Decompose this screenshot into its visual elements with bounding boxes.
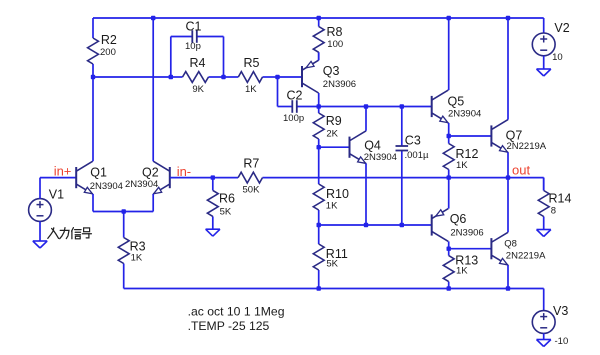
svg-text:R9: R9: [326, 114, 342, 128]
svg-text:R8: R8: [327, 25, 343, 39]
svg-text:R10: R10: [326, 187, 349, 201]
svg-text:2K: 2K: [326, 129, 338, 140]
svg-text:5K: 5K: [326, 259, 338, 270]
svg-text:R4: R4: [190, 56, 206, 70]
svg-text:R12: R12: [456, 147, 479, 161]
svg-text:9K: 9K: [192, 84, 204, 95]
svg-text:Q4: Q4: [364, 139, 381, 153]
svg-text:1K: 1K: [456, 266, 468, 277]
svg-text:2N2219A: 2N2219A: [507, 141, 547, 152]
svg-text:in-: in-: [177, 164, 191, 179]
svg-text:2N3904: 2N3904: [125, 179, 158, 190]
svg-text:Q3: Q3: [323, 64, 340, 78]
svg-text:10p: 10p: [185, 41, 201, 52]
svg-text:R3: R3: [130, 240, 146, 254]
svg-text:2N3906: 2N3906: [323, 79, 356, 90]
svg-text:V3: V3: [553, 304, 568, 318]
svg-text:in+: in+: [54, 164, 72, 179]
svg-text:1K: 1K: [131, 253, 143, 264]
svg-text:50K: 50K: [243, 185, 261, 196]
svg-text:R5: R5: [244, 56, 260, 70]
svg-text:200: 200: [100, 47, 116, 58]
svg-text:1K: 1K: [456, 160, 468, 171]
svg-text:C3: C3: [405, 134, 421, 148]
svg-text:10: 10: [552, 52, 563, 63]
svg-text:2N3904: 2N3904: [448, 109, 481, 120]
svg-text:.001µ: .001µ: [405, 150, 429, 161]
svg-text:-10: -10: [555, 336, 569, 347]
svg-text:2N3906: 2N3906: [450, 227, 483, 238]
svg-text:2N3904: 2N3904: [364, 152, 397, 163]
svg-text:5K: 5K: [220, 206, 232, 217]
svg-text:out: out: [512, 163, 530, 178]
svg-text:Q8: Q8: [504, 238, 517, 249]
svg-text:2N3904: 2N3904: [90, 181, 123, 192]
svg-text:8: 8: [551, 206, 556, 217]
svg-text:1K: 1K: [245, 84, 257, 95]
svg-text:Q1: Q1: [90, 166, 107, 180]
svg-text:R7: R7: [243, 156, 259, 170]
svg-text:Q5: Q5: [448, 94, 465, 108]
svg-text:V1: V1: [49, 188, 64, 202]
svg-text:100p: 100p: [283, 113, 304, 124]
svg-text:R6: R6: [219, 192, 235, 206]
svg-text:.TEMP -25 125: .TEMP -25 125: [188, 319, 270, 333]
svg-text:R2: R2: [101, 33, 117, 47]
svg-text:V2: V2: [554, 21, 569, 35]
svg-text:R14: R14: [549, 192, 572, 206]
svg-text:Q2: Q2: [142, 166, 159, 180]
svg-text:1K: 1K: [326, 200, 338, 211]
svg-text:Q6: Q6: [450, 212, 467, 226]
svg-text:2N2219A: 2N2219A: [506, 251, 546, 262]
svg-text:C1: C1: [186, 20, 202, 34]
svg-text:100: 100: [327, 39, 343, 50]
svg-text:.ac oct 10 1 1Meg: .ac oct 10 1 1Meg: [188, 305, 285, 319]
svg-text:C2: C2: [287, 89, 303, 103]
